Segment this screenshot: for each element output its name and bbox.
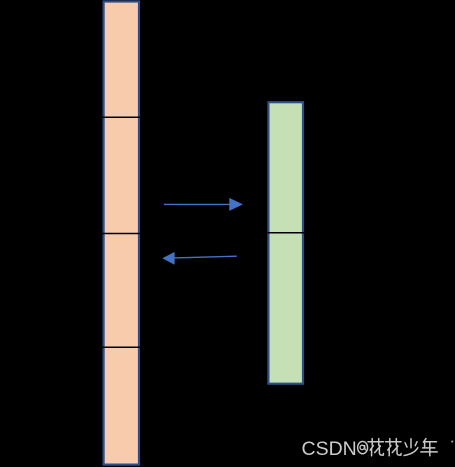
watermark glyph: 年 <box>421 439 437 456</box>
watermark dot <box>451 441 453 443</box>
arrow left (right column to left column) <box>162 252 237 265</box>
svg-text:CSDN: CSDN <box>302 438 357 460</box>
watermark glyph: @ <box>358 441 368 453</box>
left column divider 3 <box>103 346 140 348</box>
watermark glyph: 花 (1st) <box>368 439 384 456</box>
left column divider 2 <box>103 233 140 235</box>
watermark glyph: 花 (2nd) <box>386 439 402 456</box>
right column divider <box>267 232 304 234</box>
left column (orange stack) <box>104 2 139 465</box>
watermark text: CSDN <box>302 438 357 460</box>
right column (green stack) <box>268 102 303 384</box>
watermark glyph: 少 <box>404 439 418 456</box>
arrow right (left column to right column) <box>164 198 243 211</box>
left column divider 1 <box>103 116 140 118</box>
